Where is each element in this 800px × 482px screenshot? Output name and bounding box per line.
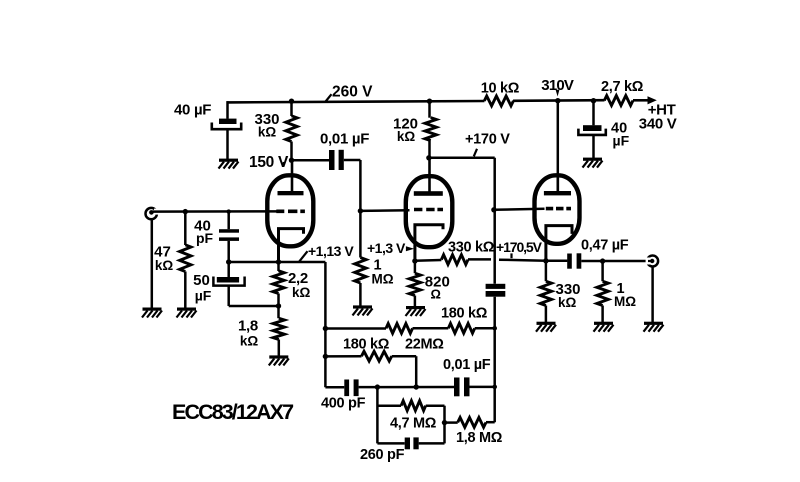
label +170,5V with tick: [496, 239, 543, 258]
svg-text:40 µF: 40 µF: [174, 102, 211, 119]
node network line1: [323, 326, 328, 331]
svg-text:260 V: 260 V: [332, 84, 373, 101]
label 260 V with tick: [325, 84, 373, 103]
svg-text:1,8: 1,8: [238, 318, 258, 335]
svg-text:pF: pF: [196, 230, 214, 246]
label 2,2 kOhm: [288, 270, 311, 300]
label 40 uF (right cap): [611, 121, 630, 149]
svg-text:kΩ: kΩ: [397, 129, 416, 144]
resistor 120 k&#937; anode load V2: [425, 101, 436, 158]
ground under 40uF right: [583, 158, 603, 168]
label 1 MOhm (output): [614, 281, 636, 309]
svg-text:+170,5V: +170,5V: [496, 239, 543, 255]
capacitor coupling to feedback network: [486, 284, 506, 297]
label 120 kOhm: [393, 116, 418, 144]
svg-text:10 kΩ: 10 kΩ: [481, 81, 520, 97]
resistor 47 k&#937; grid leak: [180, 212, 191, 308]
svg-text:kΩ: kΩ: [292, 285, 311, 300]
label 330 kOhm: [254, 111, 279, 140]
wire V3 grid: [494, 209, 545, 210]
wire cathode V1 to network (left vertical): [324, 262, 327, 387]
resistor 180 k&#937; (line1): [448, 323, 474, 333]
resistor 1 M&#937; output load: [597, 261, 608, 322]
wire V1 cathode rail: [229, 261, 326, 264]
node V3 cathode: [543, 258, 548, 263]
node supply/40uF right: [591, 98, 596, 103]
label 0,47 uF: [581, 238, 629, 254]
node input/40pF: [227, 209, 231, 213]
svg-text:+1,13 V: +1,13 V: [308, 243, 354, 259]
label ECC83/12AX7: [172, 400, 294, 424]
wire V3 cathode to output cap: [546, 260, 568, 263]
input jack connector: [146, 208, 160, 219]
label 340 V: [639, 116, 677, 133]
resistor 820 &#937; cathode V2: [409, 247, 420, 306]
node 40pF/50uF: [226, 259, 231, 264]
svg-text:340 V: 340 V: [639, 116, 677, 133]
label 0,01 uF (feedback): [443, 357, 491, 373]
label +1,13 V with tick: [299, 243, 354, 262]
svg-text:330 kΩ: 330 kΩ: [448, 240, 495, 256]
label +HT: [648, 102, 676, 119]
capacitor 40 uF decoupling (left): [212, 101, 241, 159]
node network line2: [323, 354, 328, 359]
label 150 V: [249, 154, 289, 171]
label 180 kOhm (line2): [343, 337, 390, 353]
ground under 1M first: [353, 305, 373, 315]
svg-text:50: 50: [193, 272, 210, 289]
node line3/box: [375, 384, 380, 389]
svg-text:+1,3 V: +1,3 V: [367, 240, 406, 256]
node V1 anode (150V): [289, 158, 294, 163]
ground under 330k V3: [536, 322, 556, 332]
node V3 grid feed: [491, 207, 496, 212]
label 400 pF: [321, 396, 366, 412]
label 40 uF (left cap): [174, 102, 211, 119]
svg-text:kΩ: kΩ: [258, 125, 277, 140]
wire 1,8M to vertical: [486, 421, 495, 424]
svg-text:180 kΩ: 180 kΩ: [441, 306, 488, 322]
resistor 10 k&#937; supply dropper: [484, 96, 513, 106]
wire top supply rail left (260V): [227, 101, 485, 102]
capacitor 40 uF decoupling (right): [578, 101, 605, 158]
label 330 kOhm (V3): [556, 281, 581, 310]
svg-text:µF: µF: [195, 288, 212, 304]
triode V3 (cathode follower): [535, 175, 580, 261]
wire line2 to line3: [392, 356, 417, 387]
wire top supply rail right (310V): [513, 99, 605, 102]
label +1,3 V with arrow: [367, 240, 414, 256]
svg-text:MΩ: MΩ: [614, 294, 636, 309]
resistor 1,8 k&#937;: [273, 306, 284, 356]
node cathode junction 2,2k/1,8k/50uF: [276, 303, 281, 308]
wire output: [581, 260, 650, 263]
resistor 1 M&#937; grid leak V2: [355, 258, 366, 307]
wire box bottom left: [377, 442, 404, 445]
node supply/330k: [289, 99, 294, 104]
label 22 MOhm: [405, 337, 444, 353]
wire box right vertical: [443, 406, 446, 444]
wire anode line down to V3 grid: [493, 158, 496, 284]
label 1 MOhm (first): [372, 258, 394, 287]
node input/47k: [183, 209, 188, 214]
svg-text:Ω: Ω: [431, 287, 441, 302]
wire 4,7M line right: [426, 404, 445, 407]
svg-text:0,47 µF: 0,47 µF: [581, 238, 629, 254]
wire line1 right: [475, 327, 495, 330]
triode V1 (ECC83 section 1): [267, 159, 313, 262]
wire 330k to V3 cathode (after hop): [499, 260, 546, 261]
ground under input jack: [142, 308, 162, 318]
label 0,01 uF (first): [320, 131, 369, 148]
node V2 anode: [426, 155, 431, 160]
svg-text:µF: µF: [613, 133, 630, 149]
svg-text:0,01 µF: 0,01 µF: [443, 357, 491, 373]
wire network line1 left: [325, 327, 386, 330]
label 4,7 MOhm: [390, 416, 437, 432]
label 10 kOhm: [481, 81, 520, 97]
wire output jack to ground: [651, 266, 654, 322]
wire box bottom right: [419, 442, 445, 445]
wire line1 middle: [413, 327, 449, 330]
svg-text:0,01 µF: 0,01 µF: [320, 131, 369, 148]
node V1 cathode: [276, 259, 281, 264]
wire line3 left: [325, 386, 344, 389]
wire V2 anode to coupling line: [429, 157, 495, 160]
capacitor 260 pF: [405, 437, 419, 449]
label +170 V with tick: [465, 132, 510, 157]
wire input jack to ground: [151, 219, 154, 308]
node line1/vertical: [492, 326, 497, 331]
svg-text:180 kΩ: 180 kΩ: [343, 337, 390, 353]
capacitor 0,47 uF output: [567, 253, 581, 268]
node line3/line2: [414, 384, 419, 389]
resistor 2,2 k&#937; cathode V1: [273, 262, 284, 306]
svg-text:2,7 kΩ: 2,7 kΩ: [601, 79, 644, 95]
node line3/vertical: [492, 385, 497, 390]
capacitor 0,01 uF coupling V1-V2: [292, 150, 361, 258]
node supply/120k: [427, 99, 432, 104]
resistor 180 k&#937; (line2): [362, 351, 392, 361]
wire box left vertical: [376, 387, 379, 443]
wire V2 grid feed vertical: [360, 209, 409, 212]
svg-text:400 pF: 400 pF: [321, 396, 366, 412]
ground under 820: [406, 306, 426, 316]
svg-text:kΩ: kΩ: [155, 258, 174, 273]
wire 4,7M line left: [377, 404, 401, 407]
label 310V with tick: [541, 77, 574, 97]
label 180 kOhm (line1): [441, 306, 488, 322]
ground under 47k: [177, 308, 197, 318]
node grid V2: [358, 208, 363, 213]
triode V2 (ECC83 section 2): [406, 158, 453, 261]
wire cap to network: [493, 297, 496, 423]
node box/1,8M: [442, 420, 447, 425]
svg-text:1,8 MΩ: 1,8 MΩ: [456, 430, 503, 446]
label 1,8 MOhm: [456, 430, 503, 446]
node V2 cathode: [412, 258, 417, 263]
capacitor 40 pF input: [219, 212, 239, 262]
label 1,8 kOhm: [238, 318, 258, 349]
label 47 kOhm: [154, 244, 173, 273]
svg-text:260 pF: 260 pF: [360, 447, 405, 463]
label 330 kOhm horizontal: [448, 240, 495, 256]
label 260 pF: [360, 447, 405, 463]
wire supply to +HT arrow: [633, 96, 657, 104]
ground under 1,8k: [269, 355, 289, 365]
label 2,7 kOhm: [601, 79, 644, 95]
svg-text:MΩ: MΩ: [372, 271, 394, 286]
capacitor 400 pF: [344, 379, 358, 396]
resistor 2,7 k&#937; to HT: [604, 96, 633, 106]
resistor 330 k&#937; cathode load V3: [540, 261, 551, 322]
resistor 330 k&#937; DC feedback: [415, 255, 491, 265]
svg-text:ECC83/12AX7: ECC83/12AX7: [172, 400, 294, 424]
label 50 uF: [193, 272, 212, 304]
svg-text:kΩ: kΩ: [558, 295, 577, 310]
wire V3 anode lead: [557, 101, 560, 192]
capacitor 0,01 uF (feedback): [454, 377, 470, 396]
wire network line2 left: [325, 355, 361, 358]
resistor 1,8 M&#937;: [445, 418, 487, 428]
label 40 pF: [194, 218, 213, 247]
node output/1M: [600, 258, 605, 263]
resistor 330 k&#937; anode load V1: [286, 101, 297, 160]
capacitor 50 uF cathode bypass: [213, 262, 278, 306]
wire line3 middle: [359, 386, 454, 389]
ground under 40uF left: [219, 159, 239, 169]
wire input to V1 grid: [153, 210, 277, 213]
resistor 22 M&#937;: [386, 324, 413, 334]
svg-text:22MΩ: 22MΩ: [405, 337, 444, 353]
resistor 4,7 M&#937;: [401, 401, 426, 411]
output jack connector: [646, 256, 659, 267]
ground under 1M output: [594, 322, 614, 332]
svg-text:4,7 MΩ: 4,7 MΩ: [390, 416, 437, 432]
ground under output jack: [644, 322, 664, 332]
svg-text:kΩ: kΩ: [240, 334, 259, 349]
svg-text:+170 V: +170 V: [465, 132, 510, 148]
label 820 Ohm: [425, 274, 450, 302]
wire line3 right: [470, 386, 495, 389]
node supply/V3 anode: [555, 98, 560, 103]
